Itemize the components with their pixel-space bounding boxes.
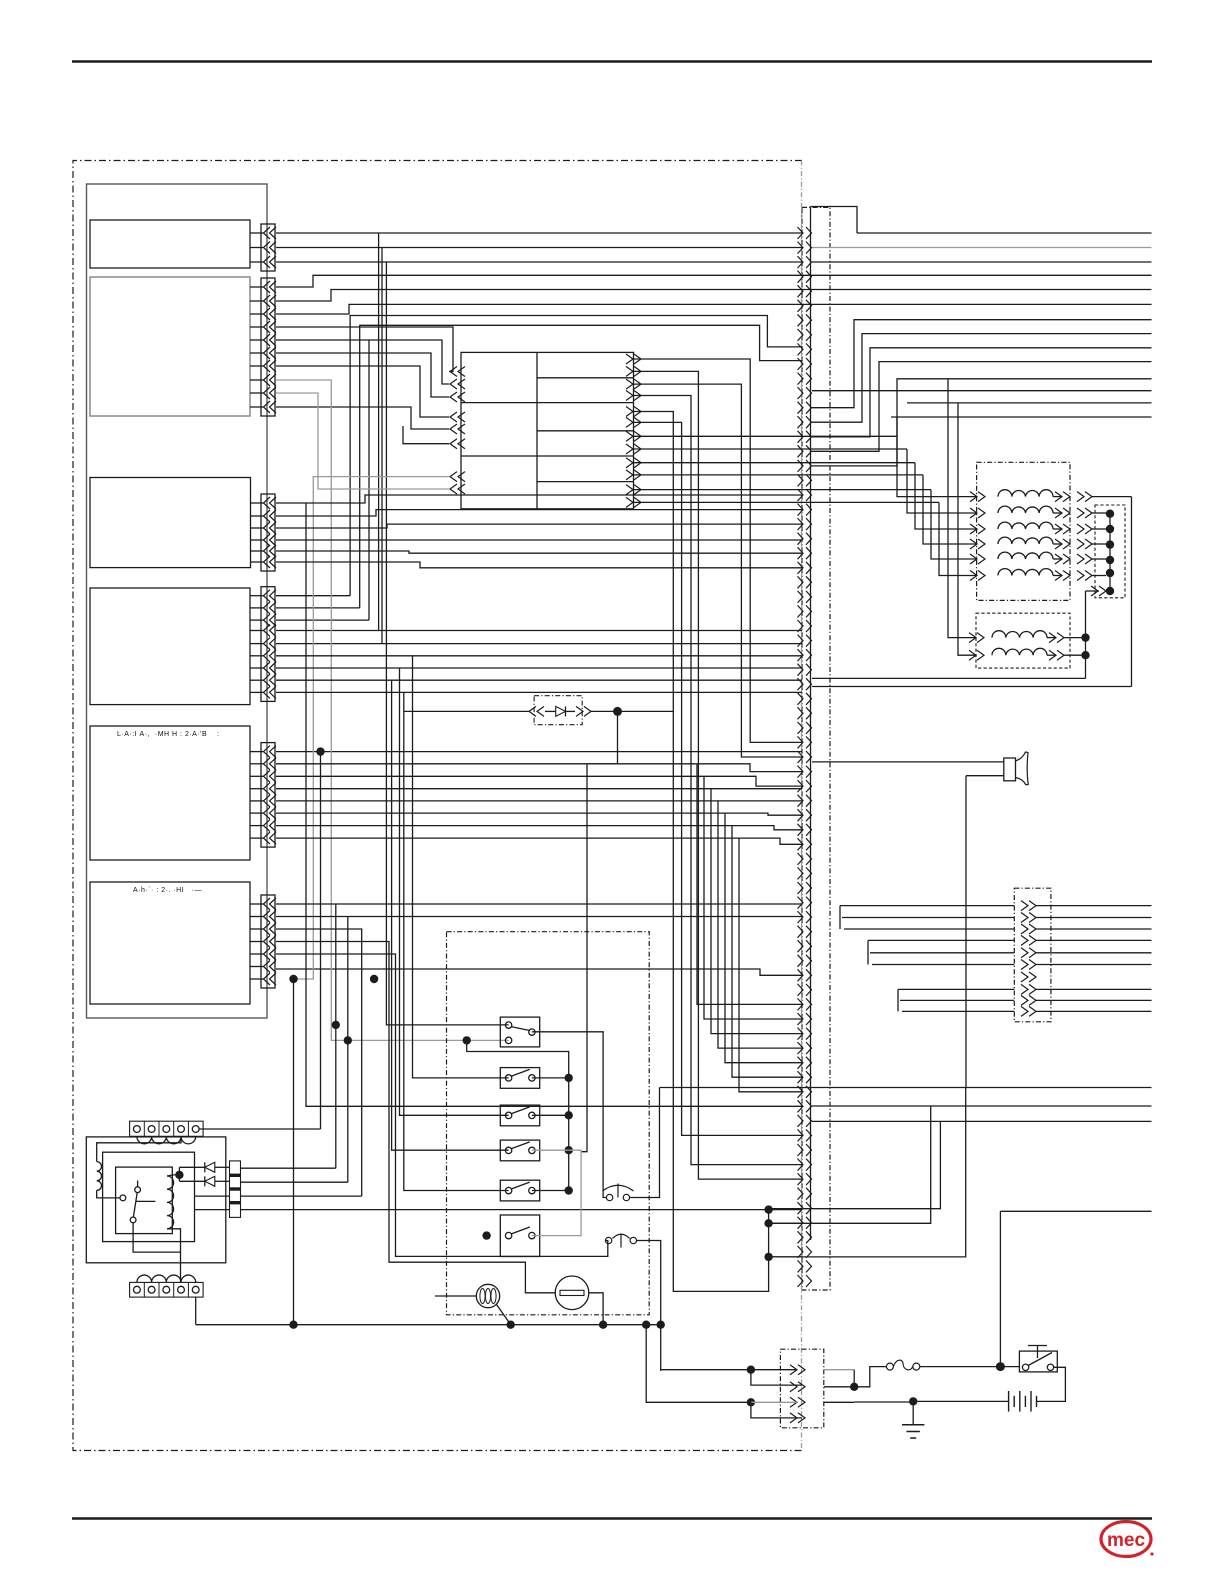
- charger terminal strip bottom: [130, 1282, 204, 1297]
- svg-text:A·h·´· : 2·. ·HI ·—: A·h·´· : 2·. ·HI ·—: [133, 887, 202, 894]
- wire J5r1 to harness: [276, 751, 802, 753]
- wire J6r1 to charger1: [335, 904, 337, 1168]
- wire J4r6 to SW2: [413, 656, 509, 1078]
- switch SW1 (2-pole): [500, 1017, 539, 1047]
- wire row7: [812, 390, 1152, 392]
- harness pin 40: [798, 795, 804, 807]
- block out3: [634, 384, 803, 757]
- wire J4r3 up to J2r5 row: [368, 340, 370, 620]
- valve coil L1: [998, 490, 1053, 497]
- harness pin 32: [798, 678, 804, 690]
- junction: [1106, 540, 1114, 548]
- pin arrow: [264, 308, 271, 320]
- wire stub: [250, 550, 264, 552]
- harness pin 8: [798, 329, 804, 341]
- junction: [850, 1383, 858, 1391]
- wire J2r4 to block in1: [276, 327, 453, 372]
- wire J4r1 up and into harness: [350, 316, 802, 596]
- terminal divider: [173, 1282, 175, 1297]
- wire: [1064, 637, 1086, 639]
- pin arrow: [264, 556, 271, 568]
- wire stub: [250, 978, 264, 980]
- coil L4 input arrow: [978, 539, 985, 549]
- wire stub: [250, 247, 264, 249]
- transformer primary winding: [137, 1137, 196, 1144]
- wire inner board to stack row4: [195, 1209, 230, 1211]
- wire J3 row: [276, 539, 802, 541]
- wire up to fuse: [854, 1367, 886, 1387]
- wire J5 row: [276, 800, 802, 802]
- pin arrow: [264, 961, 271, 973]
- output feed vertical B: [867, 940, 869, 964]
- pin arrow: [264, 638, 271, 650]
- wire J3 row jog: [276, 524, 802, 528]
- SW3 out: [532, 1114, 569, 1116]
- block out6: [634, 422, 803, 1135]
- junction: [1106, 556, 1114, 564]
- wire down to harness dot row 3: [769, 1121, 941, 1208]
- output feed vertical A: [839, 906, 841, 929]
- block output arrow 9: [634, 458, 641, 468]
- stack divider: [230, 1187, 241, 1190]
- junction ground: [909, 1397, 917, 1405]
- pin arrow: [264, 973, 271, 985]
- wire relay coil to bottom terminal: [167, 1229, 181, 1283]
- wire J4r3: [276, 619, 369, 621]
- wire row 417: [891, 416, 1152, 418]
- wire coil to bus: [1092, 528, 1106, 530]
- block input arrow 8: [450, 484, 457, 494]
- wire: [1064, 654, 1086, 656]
- wire stub: [250, 313, 264, 315]
- SW5 out: [532, 1190, 569, 1192]
- lamp left wire: [435, 1295, 476, 1297]
- module box 5: [90, 726, 250, 860]
- connector J3 (box3): [261, 494, 275, 571]
- wire to block in6: [403, 426, 449, 444]
- junction chain: [565, 1111, 573, 1119]
- harness pin 1: [798, 227, 804, 239]
- wire: [1053, 528, 1062, 530]
- wire J2r10 to block in5: [276, 407, 449, 429]
- junction J5r1: [316, 747, 324, 755]
- harness pin 61: [798, 1100, 804, 1112]
- harness pin 37: [798, 751, 804, 763]
- module box 3: [90, 478, 251, 568]
- coil L5 input arrow: [978, 554, 985, 564]
- wire strip->up->right D: [812, 362, 1152, 452]
- junction meter: [599, 1321, 607, 1329]
- wire stub: [250, 775, 264, 777]
- wire J3r1 branch to harness: [306, 503, 802, 1106]
- harness pin 45: [798, 867, 804, 879]
- terminal T4: [178, 1126, 185, 1133]
- wire J1r2 drop to J4r5: [381, 248, 383, 644]
- wire stub: [250, 261, 264, 263]
- wire J3 row jog: [276, 510, 802, 516]
- output pin 2: [1029, 913, 1036, 923]
- wire coil to bus: [1092, 512, 1106, 514]
- harness pin 23: [798, 547, 804, 559]
- wire coil feed 5: [931, 490, 977, 559]
- connector J4 (box4): [261, 587, 275, 702]
- switch SW4: [500, 1140, 539, 1161]
- harness pin 15: [798, 431, 804, 443]
- wire into output block: [902, 1010, 1014, 1012]
- wire to machine right: [1036, 905, 1152, 907]
- pressure switch PS2: [605, 1234, 636, 1248]
- harness pin 69: [798, 1217, 804, 1229]
- wire strip->up->right E: [812, 379, 1152, 466]
- wire stub: [250, 619, 264, 621]
- wire J5 branch to harness low: [711, 789, 802, 1034]
- wire stub: [250, 655, 264, 657]
- harness pin 65: [798, 1159, 804, 1171]
- block output arrow 3: [634, 379, 641, 389]
- wire stub: [250, 379, 264, 381]
- wire to machine right: [1036, 999, 1152, 1001]
- diode D2: [205, 1176, 215, 1186]
- wire J5 row jog: [276, 838, 802, 844]
- harness pin 21: [798, 518, 804, 530]
- harness pin 64: [798, 1144, 804, 1156]
- pin3 out wire: [824, 1401, 854, 1403]
- wire diode to junction: [591, 710, 673, 712]
- wire J5 branch to harness low: [704, 776, 802, 1019]
- harness top jumper: [811, 207, 858, 234]
- PS2 output wire: [637, 1241, 661, 1371]
- harness pin 54: [798, 998, 804, 1010]
- diode D1: [205, 1162, 215, 1172]
- wire stub: [250, 825, 264, 827]
- harness pin 35: [798, 722, 804, 734]
- harness pin 60: [798, 1086, 804, 1098]
- junction: [1106, 510, 1114, 518]
- pin arrow: [264, 227, 271, 239]
- pin arrow: [264, 545, 271, 557]
- wire to machine right: [1036, 964, 1152, 966]
- harness pin 19: [798, 489, 804, 501]
- junction: [1106, 587, 1114, 595]
- pin arrow: [264, 662, 271, 674]
- fuse F1: [886, 1360, 919, 1370]
- wire: [1053, 558, 1062, 560]
- wire strip->up->right C: [812, 348, 1152, 437]
- wire J6r4 to hourmeter: [276, 942, 555, 1293]
- block output arrow 1: [634, 354, 641, 364]
- alarm horn: [1004, 758, 1016, 781]
- harness pin 27: [798, 605, 804, 617]
- junction: [764, 1253, 772, 1261]
- wire J1r1 row: [276, 232, 802, 234]
- coil common junction box (dashed): [1095, 505, 1125, 598]
- wire stub: [250, 941, 264, 943]
- line filter coil: [97, 1162, 102, 1191]
- wire J4r2: [276, 607, 360, 609]
- pin arrow: [264, 686, 271, 698]
- wire stub: [250, 406, 264, 408]
- junction chain: [565, 1074, 573, 1082]
- junction diode out: [613, 707, 622, 716]
- harness pin 11: [798, 373, 804, 385]
- harness pin 50: [798, 940, 804, 952]
- terminal divider: [143, 1121, 145, 1136]
- harness pin 43: [798, 838, 804, 850]
- charger outer case: [86, 1137, 226, 1263]
- MEC logo: [1101, 1522, 1154, 1557]
- battery connector pin 3: [798, 1397, 805, 1407]
- pin arrow: [264, 522, 271, 534]
- wire into output block: [844, 928, 1014, 930]
- wire: [566, 710, 576, 712]
- wire J4r7 to SW3: [400, 668, 509, 1115]
- block out7: [634, 435, 898, 437]
- wire to machine right: [1036, 1010, 1152, 1012]
- harness pin 29: [798, 635, 804, 647]
- junction SW6: [482, 1231, 490, 1239]
- wire J6r5 to PS2: [276, 954, 608, 1256]
- wire into pin1: [661, 1369, 797, 1371]
- bottom connector (dash-dot): [780, 1349, 823, 1428]
- block right divider: [537, 377, 634, 379]
- harness pin 42: [798, 824, 804, 836]
- lamp bottom wire: [497, 1305, 511, 1325]
- output connector block (dash-dot): [1014, 888, 1051, 1022]
- switch SW2: [500, 1068, 539, 1089]
- pin arrow: [264, 256, 271, 268]
- harness pin 59: [798, 1071, 804, 1083]
- vertical trunk through control box: [581, 711, 617, 1151]
- stack divider: [230, 1201, 241, 1204]
- block out2: [634, 371, 803, 1179]
- key lever: [1028, 1353, 1052, 1366]
- wire to machine right: [1036, 939, 1152, 941]
- diode output arrows: [584, 706, 591, 716]
- wire stub: [250, 903, 264, 905]
- junction: [1106, 569, 1114, 577]
- harness pin 73: [798, 1275, 804, 1287]
- wire brake coil feed 2: [958, 403, 976, 655]
- wire J2r5 to block in2: [276, 340, 449, 384]
- junction battery feed: [996, 1362, 1005, 1371]
- SW chain bus: [467, 1040, 569, 1190]
- junction: [1106, 525, 1114, 533]
- battery plate long: [1030, 1391, 1032, 1412]
- harness pin 56: [798, 1028, 804, 1040]
- wire J4r1: [276, 595, 350, 597]
- harness pin 49: [798, 926, 804, 938]
- wire stub: [250, 679, 264, 681]
- harness pin 4: [798, 271, 804, 283]
- pin arrow: [264, 832, 271, 844]
- harness pin 71: [798, 1246, 804, 1258]
- wire charger row4 to harness: [241, 1209, 803, 1211]
- wire J4r8 to SW4: [392, 680, 509, 1150]
- wire stub: [250, 763, 264, 765]
- harness pin 20: [798, 504, 804, 516]
- wire primary to filter coil: [97, 1137, 181, 1162]
- wire stub: [250, 643, 264, 645]
- output pin 6: [1029, 960, 1036, 970]
- wire stub: [250, 527, 264, 529]
- wire stub: [250, 300, 264, 302]
- junction: [1081, 633, 1089, 641]
- wire stub: [250, 916, 264, 918]
- wire stub: [250, 539, 264, 541]
- junction SW1 in1 / charger riser: [332, 1021, 340, 1029]
- pin arrow: [264, 948, 271, 960]
- brake coil M2 input arrow: [977, 650, 984, 660]
- wire into output block: [840, 905, 1014, 907]
- block input arrow 5: [450, 424, 457, 434]
- grey wire J2r9 to block input8: [276, 393, 449, 489]
- charger out row3: [241, 1195, 362, 1197]
- wire into output block: [898, 988, 1014, 990]
- block right divider: [537, 430, 634, 432]
- junction J6r7 second: [370, 975, 378, 983]
- wire: [215, 1166, 230, 1168]
- harness pin 6: [798, 300, 804, 312]
- wire coil feed 4: [923, 475, 977, 544]
- junction J6r7: [289, 975, 297, 983]
- battery plate long: [1019, 1391, 1021, 1412]
- harness pin 30: [798, 649, 804, 661]
- pin arrow: [264, 770, 271, 782]
- pin arrow: [264, 758, 271, 770]
- pin arrow: [264, 387, 271, 399]
- block out5 to harness low: [634, 412, 769, 1292]
- SW4 out (grey): [532, 1149, 569, 1151]
- pin arrow: [264, 923, 271, 935]
- junction bottom wire end: [657, 1321, 665, 1329]
- wire stub: [250, 232, 264, 234]
- coil L2 input arrow: [978, 508, 985, 518]
- wire stub: [250, 812, 264, 814]
- relay contact c: [130, 1217, 136, 1223]
- wire into output block: [842, 917, 1014, 919]
- pin arrow: [264, 360, 271, 372]
- grey wire into pin3: [751, 1401, 797, 1403]
- pin arrow: [264, 807, 271, 819]
- wire filter to relay contact: [97, 1190, 120, 1198]
- wire coil to bus: [1092, 558, 1106, 560]
- pin arrow: [264, 911, 271, 923]
- terminal B3: [163, 1286, 170, 1293]
- terminal divider: [158, 1282, 160, 1297]
- wire alarm +: [812, 761, 1004, 763]
- outer dash-dot enclosure (platform): [73, 161, 802, 1451]
- drop to pin2: [751, 1370, 802, 1385]
- harness internal bus wire: [810, 207, 812, 1241]
- wire J3 row jog: [276, 495, 802, 503]
- harness pin 5: [798, 285, 804, 297]
- charge indicator lamp: [476, 1284, 499, 1307]
- wire: [1047, 637, 1056, 639]
- charger out row1: [241, 1167, 336, 1169]
- connector J5 (box5): [261, 743, 275, 848]
- block output arrow 7: [634, 431, 641, 441]
- wire stub: [250, 286, 264, 288]
- harness pin 31: [798, 664, 804, 676]
- wire J5 branch to harness low: [725, 813, 802, 1063]
- wire stub: [250, 502, 264, 504]
- block output arrow 11: [634, 485, 641, 495]
- wire J4r7 row: [276, 667, 802, 669]
- block input arrow 7: [450, 472, 457, 482]
- wire J6r1 row: [276, 903, 802, 905]
- harness centre line (grey dash-dot): [801, 161, 803, 1453]
- coil L1 input arrow: [978, 492, 985, 502]
- wire stub: [250, 928, 264, 930]
- diode D3: [556, 706, 566, 716]
- pin arrow: [264, 334, 271, 346]
- junction: [764, 1219, 772, 1227]
- terminal T3: [163, 1126, 170, 1133]
- wire to machine right: [1036, 988, 1152, 990]
- wire into diode assembly: [404, 710, 530, 712]
- diode assembly box (dash-dot): [534, 696, 582, 725]
- wire: [1053, 543, 1062, 545]
- harness pin 47: [798, 897, 804, 909]
- wire J5 row: [276, 788, 802, 790]
- wire row 1121: [812, 1120, 1152, 1122]
- wire J5 row jog: [276, 776, 802, 786]
- block input arrow 1: [450, 367, 457, 377]
- terminal T1: [134, 1126, 141, 1133]
- wire: [1047, 654, 1056, 656]
- brake bus vertical: [1085, 591, 1087, 678]
- harness pin 16: [798, 445, 804, 457]
- module box 4: [90, 588, 250, 705]
- harness pin 66: [798, 1173, 804, 1185]
- wire battery feed right: [1000, 1210, 1151, 1212]
- battery feed riser: [999, 1211, 1001, 1366]
- wire into output block: [872, 964, 1014, 966]
- harness pin 63: [798, 1129, 804, 1141]
- wire to machine right: [1036, 928, 1152, 930]
- harness pin 22: [798, 533, 804, 545]
- output pin 7: [1029, 972, 1036, 982]
- wire row 1106: [812, 1105, 1152, 1107]
- harness pin 53: [798, 984, 804, 996]
- pin arrow: [264, 746, 271, 758]
- pin arrow: [264, 625, 271, 637]
- pin arrow: [264, 242, 271, 254]
- pin2 out wire: [824, 1386, 854, 1388]
- battery plate short: [1013, 1396, 1015, 1407]
- wire J2r2 to row 289: [276, 290, 1152, 302]
- block output arrow 2: [634, 366, 641, 376]
- wire J4r8 row: [276, 679, 802, 681]
- wire row3: [812, 261, 1152, 263]
- wire coil to bus: [1092, 575, 1106, 577]
- wire J4r4: [276, 630, 802, 632]
- harness pin 36: [798, 736, 804, 748]
- harness pin 34: [798, 707, 804, 719]
- junction chain: [565, 1186, 573, 1194]
- brake coil M2: [992, 648, 1047, 655]
- harness pin 51: [798, 955, 804, 967]
- pin arrow: [264, 281, 271, 293]
- wire stub: [250, 326, 264, 328]
- wire alarm -: [966, 775, 1004, 777]
- relay contact b: [135, 1187, 141, 1193]
- relay link wire: [136, 1200, 156, 1202]
- harness pin 55: [798, 1013, 804, 1025]
- wire stub: [250, 788, 264, 790]
- block output arrow 4: [634, 391, 641, 401]
- output pin 10: [1029, 1006, 1036, 1016]
